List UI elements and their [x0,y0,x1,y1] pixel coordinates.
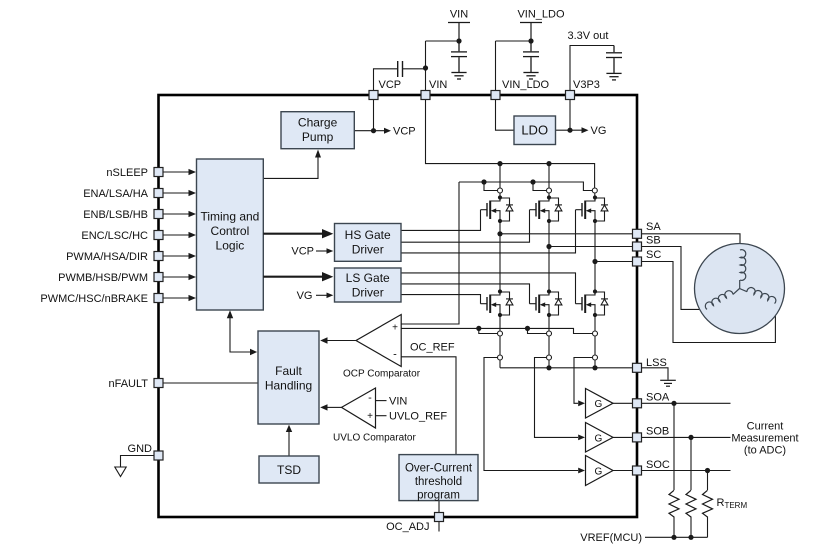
block: HS Gate Driver [335,224,402,262]
resistor R_TERM B [686,490,696,517]
arrow timing to HS driver [263,233,322,235]
pin SB [633,242,642,251]
power tap VIN_LDO [520,23,542,42]
pin VIN [421,91,430,100]
node LSS C [592,365,597,370]
winding phase A coil [740,250,746,281]
transistor Q3 high-side C [576,195,609,223]
wire SOB pin to current measurement [642,436,731,438]
wire SOC pin to current measurement [642,470,731,472]
sense circle LS B lower [547,355,552,360]
pin GND [154,451,163,460]
sense circle LS B upper [547,331,552,336]
svg-text:VCP: VCP [291,246,314,258]
node SC [592,259,597,264]
svg-text:-: - [368,392,372,404]
svg-text:Current: Current [747,421,784,433]
arrow timing to fault (right) [250,349,257,355]
arrow OCP to fault [320,337,327,343]
svg-text:SA: SA [646,221,661,233]
svg-text:V3P3: V3P3 [573,79,600,91]
thick control arrows [263,229,333,281]
arrow timing to charge pump [315,150,321,158]
wire UVLO plus input UVLO_REF [376,415,387,417]
wire SOB amp output [613,436,633,438]
wire over-current program to OC_ADJ pin [438,501,440,513]
svg-text:nFAULT: nFAULT [108,378,148,390]
wire jog to circle A [484,182,497,191]
pin nFAULT [154,379,163,388]
svg-text:LS Gate: LS Gate [346,271,390,285]
block: LS Gate Driver [335,268,402,302]
node VIN_LDO ext [528,38,533,43]
svg-text:SB: SB [646,235,661,247]
svg-text:OCP Comparator: OCP Comparator [343,369,421,380]
pin ENA [154,189,163,198]
pin V3P3 [566,91,575,100]
wire sense tap C to SOA amp [574,358,592,404]
svg-text:VIN: VIN [429,79,447,91]
wire rail drop to FET A [499,164,501,188]
wire VIN pin to internal rail [426,100,595,188]
wire VIN T to node [426,40,460,42]
wire LS source A to sense circles [499,315,501,331]
svg-text:OC_ADJ: OC_ADJ [386,521,429,533]
node rail B [546,161,551,166]
svg-text:UVLO_REF: UVLO_REF [389,411,447,423]
wire LDO output to VG node [556,129,582,131]
pin SA [633,229,642,238]
wire SOB tap to resistor [690,437,692,490]
svg-text:RTERM: RTERM [717,497,748,510]
wire OCP comparator minus input to OC_REF [401,357,456,455]
wire SA line to pin and motor [500,233,633,235]
wire LS driver out1 to gate C [401,273,576,304]
wire VIN_LDO T to node [496,40,532,42]
svg-text:VCP: VCP [379,79,402,91]
capacitor C_VIN_LDO with ground [523,41,539,79]
op-amp OCP Comparator [356,315,401,367]
power tap VIN [448,23,470,42]
wire SB line to pin and motor [549,246,633,248]
pin LSS [633,363,642,372]
node VG [567,128,572,133]
block: LDO regulator [514,116,556,145]
wire HS gate feed line to sense circles [459,182,592,191]
wire OCP output to fault handling [327,340,356,342]
pin SOB [633,433,642,442]
transistor Q2 high-side B [530,195,563,223]
svg-text:Control: Control [211,224,250,238]
wire SOA tap to resistor [673,403,675,490]
svg-text:Driver: Driver [352,285,384,299]
svg-text:+: + [367,411,373,422]
pin nSLEEP [154,168,163,177]
node SOA tap [671,401,676,406]
svg-text:VIN_LDO: VIN_LDO [502,79,550,91]
pin PWMC [154,294,163,303]
node VREF B [688,535,693,540]
svg-text:G: G [595,466,603,477]
sense circle HS A [498,188,503,193]
svg-text:G: G [595,433,603,444]
svg-text:Fault: Fault [275,364,302,378]
transistor Q5 low-side B [530,289,563,317]
block: Over-Current threshold program [399,455,478,502]
block: Charge Pump [281,112,354,149]
svg-text:VCP: VCP [393,126,416,138]
svg-text:SOB: SOB [646,426,669,438]
wire SOA pin to current measurement [642,402,731,404]
node VIN ext [456,38,461,43]
svg-text:Over-Current: Over-Current [405,462,473,474]
capacitor C_VCP (bootstrap) [397,61,399,77]
arrow timing to LS driver [263,276,322,278]
wire LSS pin to ground [642,368,669,380]
node sense B [525,326,530,331]
node gate feed A [481,179,486,184]
wire GND pin to ground symbol [121,456,155,467]
wire VIN node vertical [425,41,427,91]
wire SC line to pin and motor [595,261,633,263]
svg-text:Measurement: Measurement [731,433,798,445]
wire charge pump output [354,130,384,132]
svg-text:OC_REF: OC_REF [410,342,455,354]
svg-text:-: - [393,349,397,361]
transistor Q6 low-side C [576,289,609,317]
ground symbol at GND pin (open triangle) [115,467,126,477]
svg-text:(to ADC): (to ADC) [744,445,786,457]
wire VIN_LDO node vertical [495,41,497,91]
svg-text:SOC: SOC [646,459,670,471]
wire jog to LS circle B [528,328,547,333]
block: Fault Handling [258,331,319,424]
wire timing logic to charge pump [263,157,318,179]
wire LS driver out2 to gate B [401,284,530,304]
arrow ENB [163,213,189,215]
pin ENC [154,231,163,240]
svg-text:ENC/LSC/HC: ENC/LSC/HC [81,230,148,242]
wire V3P3 pin down to VG node [569,100,571,131]
sense circle HS B [547,188,552,193]
svg-text:SC: SC [646,249,661,261]
wire SOC tap to resistor [707,471,709,491]
wire nFAULT pin to fault handling [163,382,258,384]
wire rail drop to FET B [548,164,550,188]
pin VCP [369,91,378,100]
svg-text:HS Gate: HS Gate [345,228,391,242]
wire resistor bottoms to VREF [673,517,675,538]
svg-text:VG: VG [297,290,313,302]
op-amp G current sense SOC [578,456,613,486]
sense circle HS C [592,188,597,193]
arrow ENC [163,234,189,236]
arrow PWMC [163,297,189,299]
transistor Q4 low-side A [481,289,514,317]
svg-text:PWMC/HSC/nBRAKE: PWMC/HSC/nBRAKE [40,293,148,305]
wire HS driver out1 to gate A [401,210,481,231]
sense circle LS C upper [593,331,598,336]
winding phase B coil [733,289,740,295]
pin SOC [633,466,642,475]
capacitor C_V3P3 with ground [606,46,622,80]
wire 3.3V out to V3P3 pin [570,46,614,91]
wire HS driver out2 to gate B [401,210,530,243]
wire OCP sense vertical [401,182,459,324]
svg-text:nSLEEP: nSLEEP [106,167,148,179]
pin SC [633,257,642,266]
svg-text:GND: GND [128,443,153,455]
wire SOC amp output [613,470,633,472]
wire LS source C to sense circles [594,315,596,331]
svg-text:UVLO Comparator: UVLO Comparator [333,433,416,444]
arrow timing to fault (up) [227,310,233,318]
wire OC_ADJ pin stub [438,522,440,532]
svg-text:threshold: threshold [415,476,462,488]
svg-text:VIN_LDO: VIN_LDO [517,9,565,21]
arrow VCP into HS driver [316,250,327,252]
svg-text:Pump: Pump [302,130,334,144]
wire sense tap A to SOC amp [484,358,578,471]
wire jog to circle B [533,182,546,191]
svg-text:Timing and: Timing and [200,210,259,224]
node VCP out [371,128,376,133]
node VREF A [671,535,676,540]
resistor R_TERM A [669,490,679,517]
wire phase C node SC [594,221,596,292]
svg-text:program: program [417,489,460,501]
svg-text:PWMA/HSA/DIR: PWMA/HSA/DIR [66,251,148,263]
wire UVLO output to fault handling [327,406,342,408]
svg-text:Driver: Driver [352,242,384,256]
svg-text:3.3V out: 3.3V out [568,30,609,42]
node VCP cap / VIN [423,65,428,70]
wire sense tap B to SOB amp [535,358,579,438]
svg-text:ENA/LSA/HA: ENA/LSA/HA [83,188,148,200]
op-amp G current sense SOB [578,423,613,453]
wire jog to LS circle A [479,328,497,333]
pin PWMA [154,252,163,261]
svg-text:VIN: VIN [450,9,468,21]
pin OC_ADJ [435,513,444,522]
sense circle LS C lower [593,355,598,360]
wire VREF(MCU) line [645,536,708,538]
svg-text:Handling: Handling [265,378,312,392]
arrow UVLO to fault [320,404,327,410]
pin SOA [633,399,642,408]
node SOB tap [688,435,693,440]
node rail A [497,161,502,166]
arrow PWMB [163,276,189,278]
wire cap to VIN node [403,68,426,70]
wire VCP pin down to charge pump output node [373,100,375,131]
node LSS B [546,365,551,370]
node sense A [476,326,481,331]
wire TSD to fault handling [288,430,290,456]
transistor Q1 high-side A [481,195,514,223]
winding phase C coil [740,289,748,292]
arrow TSD to fault [286,425,292,432]
arrow ENA [163,192,189,194]
node SB [546,244,551,249]
wire HS driver out3 to gate C [401,210,576,253]
svg-text:G: G [595,399,603,410]
wire phase A node SA [499,221,501,292]
wire UVLO minus input VIN [376,400,387,402]
wire LS source B to sense circles [548,315,550,331]
wire VCP pin to external cap [374,69,398,91]
svg-text:ENB/LSB/HB: ENB/LSB/HB [83,209,148,221]
wire SOA amp output [613,402,633,404]
arrow VCP out [384,128,391,134]
block: Timing and Control Logic U1 [197,159,264,310]
svg-text:SOA: SOA [646,392,670,404]
pin VIN_LDO [491,91,500,100]
wire OCP plus sense line to LS circles [401,328,592,333]
op-amp UVLO Comparator [342,388,376,428]
svg-text:Logic: Logic [216,239,245,253]
svg-text:LDO: LDO [521,123,548,138]
arrow nSLEEP [163,171,189,173]
wire LSS rail to pin [500,367,633,369]
wire phase B node SB [548,221,550,292]
op-amp G current sense SOA [578,389,613,419]
arrow PWMA [163,255,189,257]
capacitor C_VIN with ground [451,41,467,79]
pin ENB [154,210,163,219]
svg-text:VG: VG [591,125,607,137]
wire timing to fault handling elbow [230,317,251,352]
svg-text:TSD: TSD [277,463,301,477]
sense circle LS A lower [498,355,503,360]
block: TSD (thermal shutdown) [259,456,319,483]
wire VIN_LDO pin to LDO [496,100,515,131]
svg-text:VIN: VIN [389,395,407,407]
resistor R_TERM C [703,490,713,517]
node SA [497,231,502,236]
wire LS driver out3 to gate A [401,295,481,304]
ground symbol at LSS [660,380,676,386]
input pin arrows into timing logic [163,169,196,301]
motor M winding circle [695,244,785,334]
arrow VG out [582,127,589,133]
svg-text:LSS: LSS [646,357,667,369]
wire circle to FET drains [499,193,501,197]
sense circle LS A upper [498,331,503,336]
svg-text:PWMB/HSB/PWM: PWMB/HSB/PWM [58,272,148,284]
arrow VG into LS driver [316,294,327,296]
svg-text:Charge: Charge [298,116,338,130]
node gate feed B [530,179,535,184]
pin PWMB [154,273,163,282]
svg-text:+: + [392,323,398,334]
svg-text:VREF(MCU): VREF(MCU) [580,532,642,544]
node SOC tap [705,468,710,473]
